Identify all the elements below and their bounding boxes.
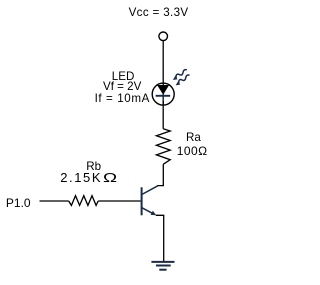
label Vf = 2V [103, 81, 141, 92]
wire Rb to base [98, 200, 140, 202]
LED light arrow 1 [171, 69, 189, 81]
LED light arrow 2 [174, 74, 192, 86]
label Vcc = 3.3V [129, 7, 189, 18]
label Rb [86, 161, 101, 172]
label 100&#937; [177, 146, 208, 157]
resistor Ra [156, 129, 170, 165]
wire emitter to ground [156, 215, 164, 261]
label If = 10mA [95, 93, 150, 104]
wire LED cathode to Ra [162, 101, 164, 129]
wire Ra to collector [157, 164, 163, 185]
transistor Q1 [142, 186, 158, 216]
Vcc terminal [159, 32, 168, 41]
label LED [112, 71, 135, 82]
resistor Rb [69, 196, 99, 206]
label P1.0 [6, 198, 31, 209]
label Ra [186, 132, 201, 143]
label 2.15K&#937; [60, 172, 114, 183]
ground [151, 262, 174, 270]
LED D1 [152, 83, 174, 105]
wire Vcc to LED anode [162, 41, 164, 86]
wire base [40, 200, 69, 202]
